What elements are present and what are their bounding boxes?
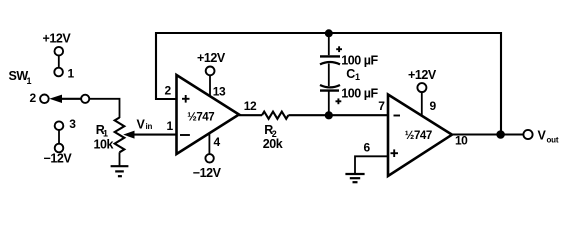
svg-text:V: V [538,129,547,143]
wire C1 top branch [328,33,330,55]
pin label 1 (SW1 contact) [68,67,75,81]
svg-text:+12V: +12V [43,32,72,46]
svg-text:13: 13 [213,85,226,99]
SW1 wiper pivot circle [81,95,89,103]
label Vout [538,129,559,145]
svg-text:SW: SW [9,69,29,83]
terminal +12V (U1 pin 13) [206,67,215,76]
svg-text:9: 9 [430,99,437,113]
ground (U2 pin 6) [345,174,364,182]
op-amp U1 triangle [177,75,240,154]
SW1 pole contact 2 circle [40,95,49,104]
junction node C1 bottom / signal wire [325,111,333,119]
svg-text:7: 7 [378,99,385,113]
pin label 2 (U1) [165,84,172,98]
R1 wiper arrow (Vin tap) [123,131,176,139]
pin label 3 (SW1 contact) [69,117,76,131]
wire U1 pin 4 to -12V terminal [208,134,210,154]
wire U2 output to Vout terminal [452,133,523,135]
SW1 wiper arrow [49,95,81,103]
wire U1 output to R2 [239,114,262,116]
svg-text:out: out [547,136,559,145]
svg-text:−12V: −12V [44,152,73,166]
pin label 7 (U2) [378,99,385,113]
svg-text:2: 2 [30,91,37,105]
capacitor C1 upper section plates [320,56,340,64]
svg-text:½747: ½747 [187,112,214,124]
wire R1 bottom to ground [119,152,121,166]
label -12V (U1 supply) [193,166,222,180]
wire U2 pin 9 to +12V terminal [421,92,423,117]
label ½747 (U1) [187,112,214,124]
U1 noninverting + symbol [182,95,190,103]
wire feedback rail (U2 output up, across top, down to U1 pin 2) [156,33,501,135]
label 20k [263,137,283,151]
svg-text:+12V: +12V [197,51,226,65]
svg-text:−12V: −12V [193,166,222,180]
wire SW1 pole to R1 top [89,99,119,118]
label ½747 (U2) [405,130,432,142]
wire U2 pin 6 to ground [355,156,388,173]
svg-text:C: C [346,67,355,81]
wire between C1 sections [328,64,330,87]
resistor R2 20k [262,112,288,119]
pin label 9 (U2) [430,99,437,113]
label +12V (U1 supply) [197,51,226,65]
terminal -12V (U1 pin 4) [205,154,213,162]
pin label 13 (U1) [213,85,226,99]
svg-text:4: 4 [214,135,221,149]
polarity + (lower cap) [336,98,342,104]
label 100 uF (upper) [341,54,378,68]
wire R2 to U2 pin 7 [288,114,388,116]
switch SW1 label [9,69,32,86]
wire C1 bottom branch [328,90,330,115]
pin label 2 (SW1 pole) [30,91,37,105]
wire U1 pin 13 to +12V terminal [209,75,211,96]
svg-text:2: 2 [165,84,172,98]
junction node top rail / C1 top [325,29,333,37]
ground (R1) [111,166,129,176]
svg-text:+12V: +12V [408,68,437,82]
pin label 10 (U2 output) [455,134,468,148]
svg-text:6: 6 [364,141,371,155]
U2 noninverting + symbol [391,149,399,157]
svg-text:V: V [137,118,146,132]
svg-text:10k: 10k [94,138,114,152]
label R2 [264,123,277,139]
svg-text:1: 1 [167,119,174,133]
svg-text:10: 10 [455,134,468,148]
svg-text:1: 1 [355,72,360,82]
resistor R1 10k (potentiometer) [115,118,125,153]
label C1 [346,67,360,82]
polarity + (upper cap) [336,46,342,52]
label R1 [96,123,108,139]
label -12V (SW1 contact 3 supply) [44,152,73,166]
capacitor C1 lower section plates [320,85,340,91]
op-amp U2 triangle [388,95,452,177]
svg-text:in: in [146,122,153,131]
label +12V (SW1 contact 1 supply) [43,32,72,46]
svg-text:3: 3 [69,117,76,131]
label Vin [137,118,153,132]
label 100 uF (lower) [341,87,378,101]
U1 inverting - symbol [180,134,190,136]
svg-text:20k: 20k [263,137,283,151]
junction node output / feedback [496,130,505,139]
pin label 12 (U1 output) [244,99,257,113]
label +12V (U2 supply) [408,68,437,82]
wire +12V terminal to contact 1 [58,56,60,68]
terminal -12V below SW1 [55,144,64,153]
terminal Vout [523,130,532,139]
SW1 contact 3 circle [55,121,64,130]
U2 inverting - symbol [394,115,401,117]
pin label 6 (U2) [364,141,371,155]
pin label 4 (U1) [214,135,221,149]
terminal +12V above SW1 [55,47,64,56]
svg-text:100 µF: 100 µF [341,54,378,68]
svg-text:1: 1 [27,76,32,86]
svg-text:12: 12 [244,99,257,113]
svg-text:1: 1 [68,67,75,81]
label 10k [94,138,114,152]
pin label 1 (U1 inverting input) [167,119,174,133]
wire contact 3 to -12V terminal [58,130,60,144]
svg-text:100 µF: 100 µF [341,87,378,101]
SW1 contact 1 circle [54,68,63,77]
terminal +12V (U2 pin 9) [417,83,426,92]
svg-text:½747: ½747 [405,130,432,142]
